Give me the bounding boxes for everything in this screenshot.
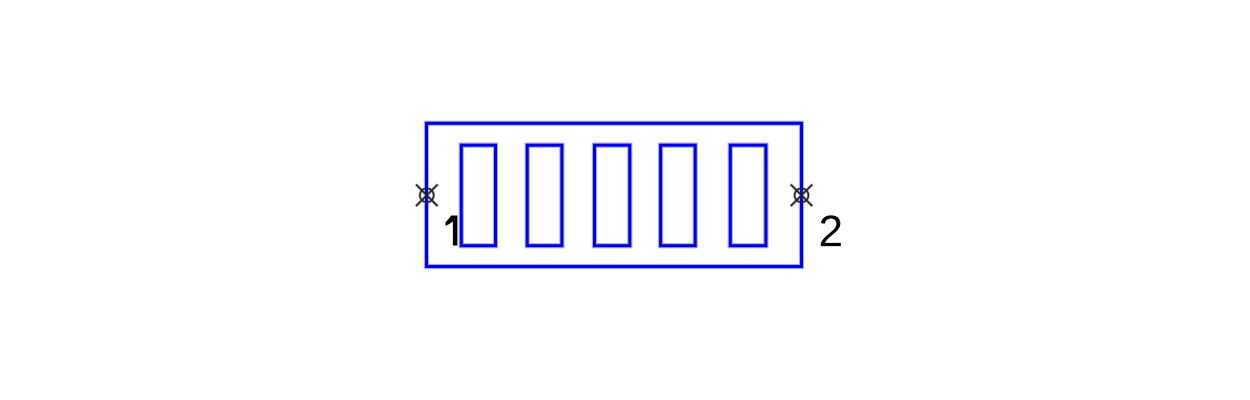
- pin 2 end marker halo: [791, 184, 813, 206]
- pin 1 end marker: [416, 185, 437, 206]
- pin 1 number: [446, 216, 458, 246]
- component U1 body halo: [427, 123, 802, 266]
- bar 4: [661, 145, 696, 246]
- bar 5: [730, 145, 766, 246]
- component U1 body: [427, 123, 802, 266]
- bar 3: [595, 145, 630, 246]
- bar 1: [461, 145, 495, 246]
- pin 2 number: [821, 215, 841, 246]
- bar 2: [527, 145, 562, 246]
- pin 1 end marker halo: [416, 184, 438, 206]
- pin 2 end marker: [791, 185, 812, 206]
